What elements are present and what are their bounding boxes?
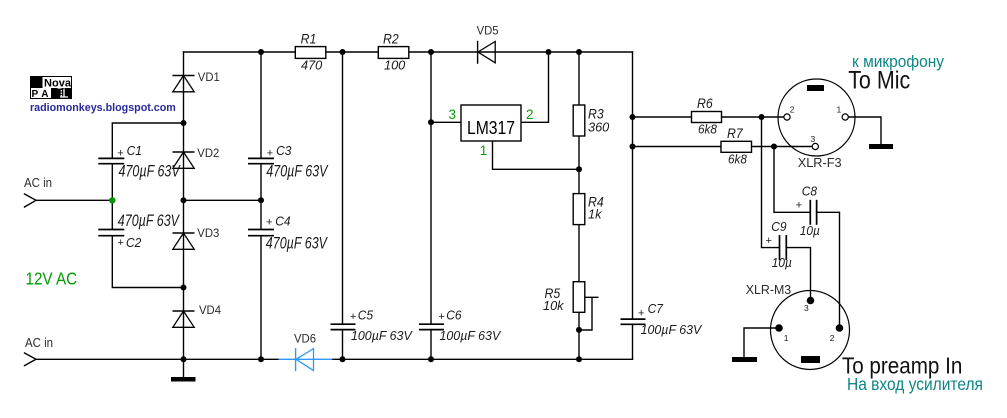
svg-text:360: 360 <box>588 120 609 135</box>
capacitor C1 <box>98 143 181 181</box>
svg-text:2: 2 <box>790 105 795 115</box>
svg-text:C3: C3 <box>276 143 291 158</box>
svg-text:2: 2 <box>830 333 835 343</box>
svg-text:VD5: VD5 <box>477 23 499 38</box>
svg-text:C9: C9 <box>771 220 786 235</box>
wire XLR-M3 pin1 to ground <box>744 328 775 357</box>
ground (left of XLR-M3) <box>732 357 757 362</box>
node junction LM317 pin3 net <box>428 119 434 125</box>
node junction C3-C4 mid <box>258 197 264 203</box>
svg-text:C4: C4 <box>275 214 290 229</box>
svg-text:12V AC: 12V AC <box>26 270 78 289</box>
node junction R6 net / C9 tap <box>759 114 765 120</box>
pin 1 <box>775 324 783 332</box>
ground (below diode chain) <box>171 377 196 382</box>
capacitor C6 <box>419 308 502 343</box>
svg-text:R1: R1 <box>301 31 317 47</box>
svg-text:+: + <box>267 147 273 159</box>
wire C3-C4 column <box>260 52 262 359</box>
svg-text:VD3: VD3 <box>197 226 219 241</box>
capacitor C4 <box>248 214 328 253</box>
svg-text:R6: R6 <box>697 96 713 112</box>
node junction C6 top rail <box>428 49 434 55</box>
node junction C4 bottom rail <box>258 356 264 362</box>
capacitor C7 <box>621 301 703 337</box>
node junction R3 top rail <box>576 49 582 55</box>
svg-text:C1: C1 <box>127 143 142 158</box>
wire LM317 pin3 <box>431 121 461 123</box>
svg-text:LM317: LM317 <box>467 118 515 138</box>
svg-text:+: + <box>266 217 272 229</box>
svg-text:+: + <box>438 311 444 323</box>
svg-text:AC in: AC in <box>24 175 52 190</box>
capacitor C9 <box>766 220 792 270</box>
node junction C5 bottom rail <box>340 356 346 362</box>
svg-text:AC in: AC in <box>25 335 53 350</box>
node AC mid (green) <box>109 197 115 203</box>
resistor R1 <box>295 31 326 72</box>
svg-text:C7: C7 <box>648 301 664 316</box>
svg-text:470µF 63V: 470µF 63V <box>119 163 181 181</box>
svg-text:1: 1 <box>480 143 488 158</box>
node junction R5 bottom / wiper <box>576 327 582 333</box>
diode VD1 <box>173 70 220 92</box>
wire C7 column <box>632 52 634 359</box>
svg-text:radiomonkeys.blogspot.com: radiomonkeys.blogspot.com <box>30 102 176 114</box>
wire R3-R4-R5 column <box>578 52 580 359</box>
svg-text:R2: R2 <box>383 31 399 47</box>
node junction R3-R4 / LM317 adj <box>576 166 582 172</box>
wire bottom rail right <box>332 358 632 360</box>
pin 3 <box>812 143 818 149</box>
svg-text:6k8: 6k8 <box>728 152 747 167</box>
wire top rail <box>184 51 633 53</box>
svg-text:6k8: 6k8 <box>698 122 717 137</box>
svg-text:C5: C5 <box>358 308 374 323</box>
regulator U1 LM317 <box>449 105 534 158</box>
svg-text:VD2: VD2 <box>197 146 219 161</box>
wire node117 down to C9 <box>762 117 780 248</box>
svg-text:10µ: 10µ <box>772 255 792 269</box>
svg-text:R7: R7 <box>727 125 743 141</box>
svg-text:470: 470 <box>301 57 322 72</box>
wire R6 net (y=117) <box>633 116 784 118</box>
wire C9 to XLR-M3 pin3 <box>786 248 810 301</box>
svg-text:100µF 63V: 100µF 63V <box>440 329 502 343</box>
resistor R5 <box>543 282 585 313</box>
pin 2 <box>836 324 844 332</box>
svg-text:+: + <box>796 200 802 212</box>
wire LM317 pin1 <box>493 141 580 169</box>
svg-text:+: + <box>638 307 644 319</box>
node junction C3 top rail <box>258 49 264 55</box>
diode VD2 <box>173 146 220 169</box>
wire node146 down to C8 <box>774 147 810 213</box>
svg-text:C8: C8 <box>802 184 817 199</box>
wire bottom rail left <box>25 353 279 366</box>
svg-text:3: 3 <box>449 107 457 122</box>
svg-text:100µF 63V: 100µF 63V <box>641 323 703 337</box>
wire C8 to XLR-M3 pin2 <box>817 212 840 328</box>
svg-text:C6: C6 <box>446 308 462 323</box>
node junction output to R7 <box>630 144 636 150</box>
wire R7 net (y=146.5) <box>633 146 813 148</box>
svg-text:3: 3 <box>804 303 809 313</box>
node junction VD2-VD3 / AC mid rail <box>181 197 187 203</box>
svg-text:VD6: VD6 <box>294 331 316 346</box>
node junction output to R6 <box>630 114 636 120</box>
svg-text:VD1: VD1 <box>198 70 220 85</box>
node junction chain bottom / ground rail <box>181 356 187 362</box>
wire R5 wiper <box>579 297 598 330</box>
capacitor C8 <box>796 184 820 238</box>
connector XLR-M3 <box>746 282 850 370</box>
svg-text:3: 3 <box>811 134 816 144</box>
wire chain to C3C4 (y=200) <box>184 199 262 201</box>
diode VD6 (blue) <box>279 331 333 371</box>
wire C5 column <box>342 52 344 359</box>
pin 2 <box>784 114 790 120</box>
svg-text:1: 1 <box>784 333 789 343</box>
svg-text:XLR-F3: XLR-F3 <box>798 155 842 170</box>
diode VD4 <box>173 303 222 328</box>
svg-text:1k: 1k <box>588 207 602 222</box>
wire diode chain column <box>183 52 185 378</box>
capacitor C3 <box>248 143 329 181</box>
pin 3 <box>807 297 815 305</box>
svg-text:470µF 63V: 470µF 63V <box>118 212 180 230</box>
node junction VD5 cathode rail <box>546 49 552 55</box>
wire C1 top to chain (y=123) <box>112 123 183 158</box>
node junction R7 net / C8 tap <box>771 144 777 150</box>
svg-text:470µF 63V: 470µF 63V <box>266 235 328 253</box>
wire AC in top <box>25 194 113 207</box>
node junction R5 bottom rail <box>576 356 582 362</box>
svg-text:10k: 10k <box>543 298 564 313</box>
svg-text:470µF 63V: 470µF 63V <box>266 163 328 181</box>
svg-text:+: + <box>117 147 123 159</box>
resistor R7 <box>721 125 752 166</box>
node junction VD3-VD4 / C2 bottom <box>181 285 187 291</box>
svg-text:VD4: VD4 <box>199 303 221 318</box>
wire XLR-F3 pin1 to ground <box>848 117 881 144</box>
resistor R2 <box>378 31 409 72</box>
svg-text:100µF 63V: 100µF 63V <box>351 329 413 343</box>
svg-text:100: 100 <box>384 57 405 72</box>
diode VD3 <box>173 226 220 250</box>
svg-text:To Mic: To Mic <box>848 66 910 94</box>
connector XLR-F3 <box>778 79 855 170</box>
wire C1-C2 mid column <box>111 164 113 229</box>
capacitor C2 <box>98 212 180 250</box>
svg-text:На вход усилителя: На вход усилителя <box>847 374 983 394</box>
svg-text:2: 2 <box>526 107 534 122</box>
resistor R4 <box>573 194 603 225</box>
resistor R6 <box>692 96 722 137</box>
wire LM317 pin2 <box>521 52 549 122</box>
capacitor C5 <box>331 308 414 343</box>
wire C6 column <box>430 52 432 359</box>
wire C2 bottom to chain (y=287.5) <box>112 236 183 287</box>
node junction C6 bottom rail <box>428 356 434 362</box>
node junction C5 top rail <box>340 49 346 55</box>
ground (right of XLR-F3) <box>869 144 893 149</box>
svg-text:+: + <box>766 235 772 247</box>
svg-text:10µ: 10µ <box>800 223 820 237</box>
resistor R3 <box>573 105 609 136</box>
logo Nova PA <box>30 76 72 100</box>
svg-text:XLR-M3: XLR-M3 <box>746 282 792 298</box>
pin 1 <box>842 114 848 120</box>
svg-text:+: + <box>118 237 124 249</box>
svg-text:+: + <box>350 311 356 323</box>
diode VD5 <box>477 23 499 64</box>
svg-text:C2: C2 <box>126 235 141 250</box>
svg-text:1: 1 <box>837 105 842 115</box>
node junction VD1-VD2 / C1 top <box>181 120 187 126</box>
